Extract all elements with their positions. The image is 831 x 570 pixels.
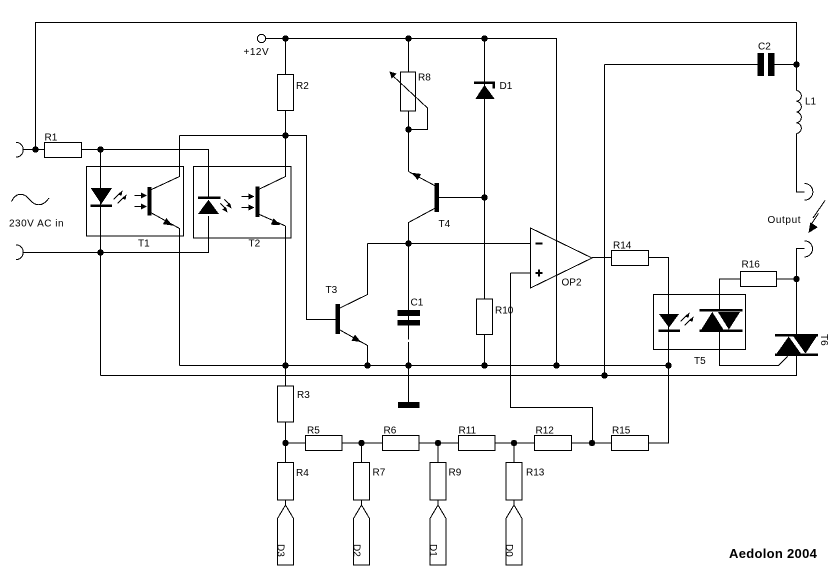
svg-text:R12: R12	[536, 426, 555, 437]
node ladder R6 R11 R9	[435, 440, 441, 446]
wire AC top terminal to R1	[23, 149, 44, 151]
node AC neutral junction	[97, 249, 103, 255]
svg-text:L1: L1	[805, 97, 817, 108]
opto-triac T5 body	[654, 295, 746, 350]
optocoupler T2 body	[194, 167, 292, 239]
svg-text:Output: Output	[768, 215, 802, 226]
LED T5 emission arrows	[681, 316, 691, 326]
resistor R16	[741, 272, 777, 287]
phototransistor T1 base bar	[148, 187, 152, 216]
svg-text:T4: T4	[439, 219, 451, 230]
phototransistor T2 light-in arrows	[242, 197, 250, 208]
wire resistor ladder row	[286, 442, 669, 444]
svg-text:R7: R7	[373, 468, 386, 479]
svg-text:+12V: +12V	[244, 47, 270, 58]
wire op-amp output to R14	[592, 257, 612, 259]
node ladder R12 R15 feedback	[589, 440, 595, 446]
wire C1 top	[408, 244, 410, 340]
LED T2 emission arrows	[221, 200, 231, 210]
svg-text:D3: D3	[275, 544, 286, 557]
resistor R1	[45, 143, 82, 158]
svg-text:R9: R9	[449, 468, 462, 479]
node bus1 R10	[481, 362, 487, 368]
resistor R4	[278, 463, 294, 501]
wire R9 to pin D1	[437, 443, 439, 505]
connector pin D2	[354, 505, 370, 565]
wire T5 triac MT2 to R16	[720, 279, 741, 309]
transistor T4 collector	[409, 209, 435, 244]
wire R2 chain	[285, 39, 287, 136]
phototransistor T1 light-in arrows	[135, 196, 143, 207]
svg-text:R1: R1	[45, 133, 58, 144]
node C2 L1 junction	[793, 61, 799, 67]
capacitor C1 plates	[398, 310, 421, 316]
node bus1 R3	[282, 362, 288, 368]
optocoupler T1 body	[87, 167, 184, 237]
node +12V to R8	[405, 35, 411, 41]
svg-text:T5: T5	[694, 356, 706, 367]
svg-text:R10: R10	[495, 306, 514, 317]
LED T1	[91, 188, 112, 204]
svg-text:R3: R3	[297, 390, 310, 401]
AC sine symbol	[12, 194, 50, 204]
resistor R13	[506, 463, 522, 501]
connector pin D0	[506, 505, 522, 565]
resistor R15	[612, 436, 649, 451]
svg-text:230V AC in: 230V AC in	[9, 219, 64, 230]
node +12V to R2	[282, 35, 288, 41]
wire op-amp noninverting stub	[511, 272, 531, 274]
node R16 output T6	[793, 276, 799, 282]
transistor T3 base bar	[336, 304, 341, 334]
transistor T3 collector	[340, 244, 368, 309]
wire op-amp inverting input line	[368, 243, 531, 245]
wire node A through T1 LED down to neutral bus	[100, 150, 102, 376]
terminal AC input bottom	[16, 245, 23, 260]
trimmer R8 wiper arrow	[393, 76, 428, 130]
svg-text:R16: R16	[742, 260, 761, 271]
node bus1 T3 emitter	[364, 362, 370, 368]
wire ground bus1	[180, 365, 669, 367]
terminal output top	[805, 184, 813, 201]
resistor R9	[430, 463, 446, 501]
resistor R7	[354, 463, 370, 501]
wire D1 R10 chain	[484, 39, 486, 366]
resistor R10	[477, 299, 493, 335]
wire mains live top loop	[36, 23, 797, 151]
LED T5	[659, 314, 679, 328]
svg-text:R15: R15	[612, 426, 631, 437]
wire +12V rail down to bus1	[266, 39, 557, 366]
node bus1 C1 ground	[405, 362, 411, 368]
node ladder R3 R4 R5	[282, 440, 288, 446]
svg-text:R8: R8	[418, 73, 431, 84]
terminal output bottom	[805, 241, 813, 257]
wire AC bottom line to T2 LED	[23, 216, 208, 253]
wire neutral bus2 to T6 MT1	[101, 356, 797, 376]
wire R7 to pin D2	[361, 443, 363, 505]
wire C2 right plate to corner	[775, 64, 797, 66]
T1 emitter	[152, 213, 180, 366]
resistor R5	[306, 436, 343, 451]
transistor T4 emitter	[409, 172, 435, 186]
LED T2	[198, 197, 221, 200]
wire feedback from + input to R12 R15 node	[511, 273, 593, 443]
zener diode D1	[474, 82, 495, 85]
wire T4 base to D1 line	[439, 197, 485, 199]
terminal +12V circle	[257, 34, 265, 42]
wire R16 to output node	[777, 278, 797, 280]
transistor T3 emitter	[340, 330, 368, 366]
wire C2 left line down to bus2	[604, 65, 606, 376]
svg-text:R13: R13	[526, 468, 545, 479]
T2 emitter	[260, 215, 286, 227]
node T4 base D1	[481, 194, 487, 200]
wire R1 to T2 LED cathode	[82, 150, 209, 198]
ground	[398, 402, 420, 408]
wire output bottom terminal to R16 node	[797, 249, 805, 280]
transistor T4 base bar	[435, 183, 440, 212]
svg-text:R6: R6	[384, 426, 397, 437]
phototransistor T2 base bar	[256, 187, 260, 218]
svg-text:C1: C1	[411, 298, 424, 309]
wire T2 emitter chain down through R3 R4 to pin D3	[285, 226, 287, 505]
resistor R8	[401, 72, 416, 111]
svg-text:R11: R11	[459, 426, 477, 437]
terminal AC input top	[16, 142, 23, 157]
wire T6 MT2 riser	[796, 279, 798, 334]
output lightning bolt	[810, 201, 825, 227]
node ladder R5 R6 R7	[358, 440, 364, 446]
svg-text:D2: D2	[351, 544, 362, 557]
node ladder R11 R12 R13	[511, 440, 517, 446]
node A R1 to LEDs	[97, 146, 103, 152]
wire R14 to T5 LED down to R15	[649, 258, 669, 444]
svg-text:T2: T2	[249, 239, 261, 250]
resistor R3	[278, 386, 294, 422]
connector pin D3	[278, 505, 294, 565]
wire T5 triac MT1 to T6 gate	[720, 332, 788, 366]
node bus1 +12V line	[553, 362, 559, 368]
wire R8 chain	[408, 39, 410, 172]
wire C1 bottom to ground	[408, 342, 410, 402]
node R2 T1 collector T3 base	[282, 132, 288, 138]
wire R13 to pin D0	[513, 443, 515, 505]
svg-text:R14: R14	[613, 241, 632, 252]
node +12V to D1	[481, 35, 487, 41]
wire T1 collector to R2 node to T3 base	[180, 136, 336, 320]
connector pin D1	[430, 505, 446, 565]
node bus1 T5 LED R15	[665, 362, 671, 368]
LED T1 emission arrows	[114, 194, 124, 204]
wire L1 to output top terminal	[797, 134, 805, 193]
svg-text:T1: T1	[138, 239, 150, 250]
op-amp OP2	[531, 228, 593, 288]
svg-text:T3: T3	[326, 285, 338, 296]
resistor R11	[459, 436, 496, 451]
svg-text:D1: D1	[427, 544, 438, 557]
resistor R6	[383, 436, 420, 451]
node AC top / loop junction	[32, 146, 38, 152]
T2 collector	[260, 136, 286, 190]
inductor L1	[797, 91, 802, 134]
svg-text:D0: D0	[503, 544, 514, 557]
resistor R2	[278, 75, 294, 111]
wire L1 top stub	[796, 65, 798, 91]
resistor R14	[612, 251, 649, 266]
node bus2 C2 line	[601, 372, 607, 378]
svg-text:T6: T6	[818, 334, 829, 346]
svg-text:R4: R4	[296, 468, 309, 479]
svg-text:C2: C2	[758, 42, 771, 53]
node R8 wiper	[405, 126, 411, 132]
triac T6	[775, 334, 818, 337]
svg-text:Aedolon 2004: Aedolon 2004	[729, 546, 818, 561]
svg-text:R5: R5	[307, 426, 320, 437]
svg-text:R2: R2	[296, 81, 309, 92]
capacitor C2 plates	[758, 53, 765, 76]
svg-text:OP2: OP2	[562, 278, 582, 289]
resistor R12	[535, 436, 572, 451]
wire to C2 left plate	[605, 64, 758, 66]
node T4 collector C1 inverting input	[405, 240, 411, 246]
triac T5	[700, 309, 743, 312]
T1 collector	[152, 136, 180, 190]
svg-text:D1: D1	[500, 81, 513, 92]
